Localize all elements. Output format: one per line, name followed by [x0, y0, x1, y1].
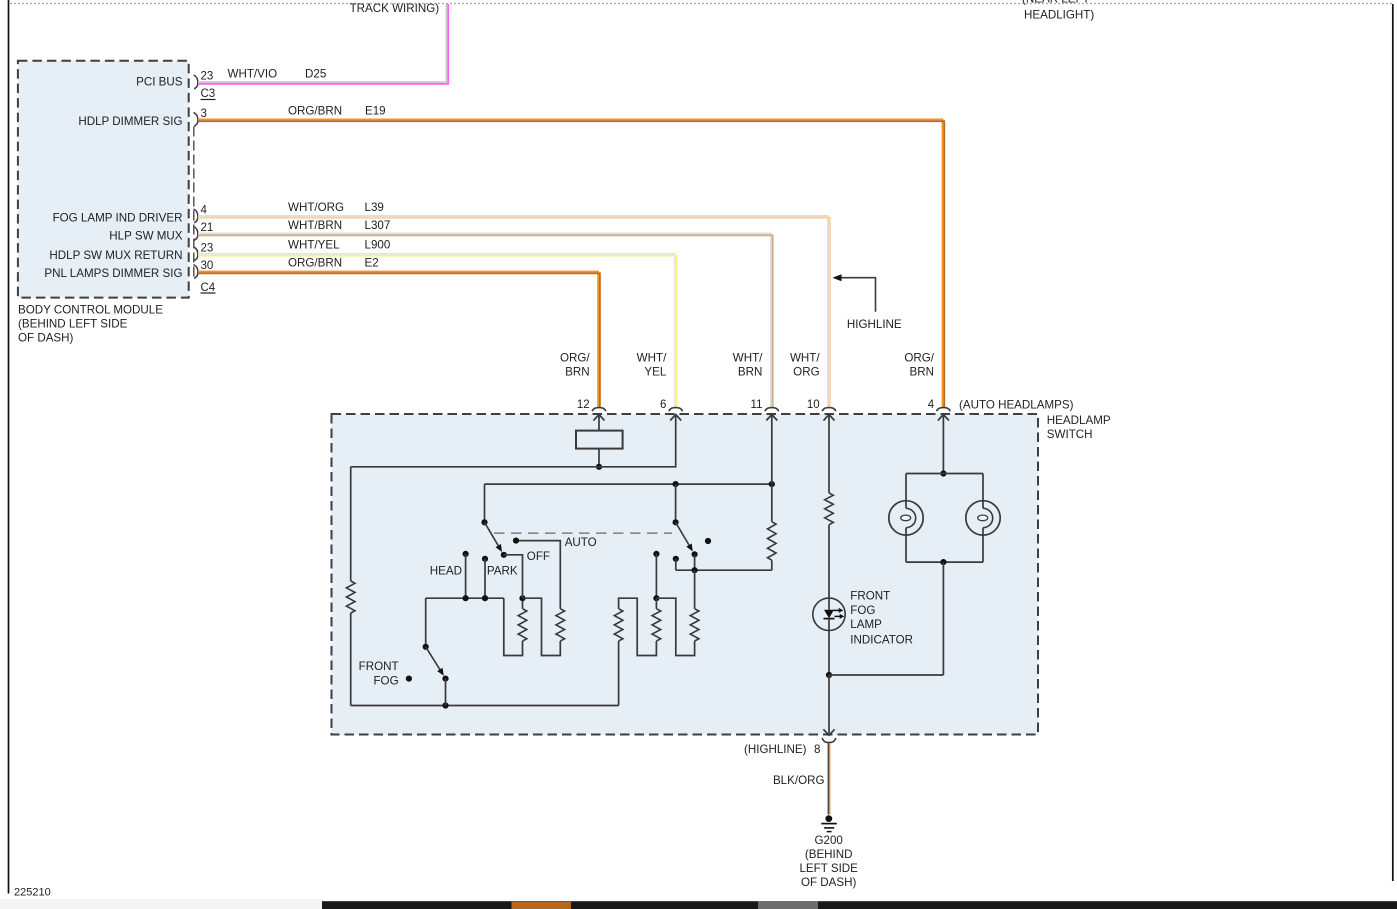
- svg-text:BRN: BRN: [565, 366, 589, 379]
- svg-text:ORG/BRN: ORG/BRN: [288, 105, 342, 118]
- svg-text:E19: E19: [365, 105, 386, 118]
- svg-text:PNL LAMPS DIMMER SIG: PNL LAMPS DIMMER SIG: [44, 267, 182, 280]
- svg-text:11: 11: [751, 399, 763, 411]
- svg-text:FOG: FOG: [850, 604, 875, 617]
- svg-text:(HIGHLINE): (HIGHLINE): [744, 743, 807, 756]
- svg-text:8: 8: [814, 743, 820, 756]
- svg-text:WHT/: WHT/: [637, 352, 667, 365]
- svg-text:OF DASH): OF DASH): [18, 332, 74, 345]
- svg-text:OF DASH): OF DASH): [801, 876, 857, 889]
- svg-text:ORG/: ORG/: [904, 352, 934, 365]
- svg-text:10: 10: [807, 399, 820, 411]
- svg-text:WHT/: WHT/: [790, 352, 820, 365]
- svg-text:21: 21: [201, 222, 214, 234]
- svg-text:C4: C4: [201, 282, 216, 294]
- svg-text:4: 4: [201, 205, 208, 217]
- svg-text:ORG/: ORG/: [560, 352, 590, 365]
- svg-text:HEADLAMP: HEADLAMP: [1047, 414, 1111, 427]
- svg-text:(NEAR LEFT: (NEAR LEFT: [1022, 0, 1090, 6]
- svg-text:LAMP: LAMP: [850, 618, 882, 631]
- svg-text:HEADLIGHT): HEADLIGHT): [1024, 9, 1094, 22]
- svg-text:BLK/ORG: BLK/ORG: [773, 774, 825, 787]
- svg-text:L307: L307: [365, 219, 391, 232]
- svg-text:WHT/YEL: WHT/YEL: [288, 239, 340, 252]
- svg-text:ORG: ORG: [793, 366, 819, 379]
- svg-text:(AUTO HEADLAMPS): (AUTO HEADLAMPS): [959, 398, 1074, 411]
- svg-text:INDICATOR: INDICATOR: [850, 634, 913, 647]
- svg-text:L900: L900: [365, 239, 391, 252]
- svg-text:HDLP SW MUX RETURN: HDLP SW MUX RETURN: [49, 249, 182, 262]
- svg-text:ORG/BRN: ORG/BRN: [288, 257, 342, 270]
- svg-text:OFF: OFF: [527, 550, 550, 563]
- svg-text:E2: E2: [365, 257, 379, 270]
- svg-text:C3: C3: [201, 88, 216, 100]
- svg-text:(BEHIND LEFT SIDE: (BEHIND LEFT SIDE: [18, 318, 128, 331]
- svg-text:3: 3: [201, 108, 207, 120]
- svg-text:BODY CONTROL MODULE: BODY CONTROL MODULE: [18, 304, 163, 317]
- svg-text:FOG LAMP IND DRIVER: FOG LAMP IND DRIVER: [53, 212, 183, 225]
- svg-text:HEAD: HEAD: [430, 564, 462, 577]
- svg-text:D25: D25: [305, 68, 326, 81]
- svg-text:FRONT: FRONT: [850, 590, 890, 603]
- svg-text:LEFT SIDE: LEFT SIDE: [799, 862, 858, 875]
- svg-text:(BEHIND: (BEHIND: [805, 848, 853, 861]
- svg-text:HDLP DIMMER SIG: HDLP DIMMER SIG: [78, 115, 182, 128]
- svg-text:YEL: YEL: [644, 366, 666, 379]
- svg-text:PCI BUS: PCI BUS: [136, 76, 183, 89]
- svg-text:L39: L39: [365, 201, 384, 214]
- svg-text:WHT/VIO: WHT/VIO: [228, 68, 278, 81]
- svg-text:TRACK WIRING): TRACK WIRING): [350, 2, 440, 15]
- svg-text:WHT/BRN: WHT/BRN: [288, 219, 342, 232]
- svg-text:BRN: BRN: [738, 366, 762, 379]
- svg-text:HIGHLINE: HIGHLINE: [847, 318, 902, 331]
- svg-text:225210: 225210: [14, 887, 51, 899]
- svg-text:FOG: FOG: [373, 675, 398, 688]
- svg-text:PARK: PARK: [487, 564, 518, 577]
- svg-text:FRONT: FRONT: [359, 660, 399, 673]
- svg-text:23: 23: [201, 243, 214, 255]
- svg-text:WHT/: WHT/: [733, 352, 763, 365]
- svg-text:4: 4: [928, 399, 935, 411]
- svg-text:HLP SW MUX: HLP SW MUX: [109, 229, 182, 242]
- svg-text:G200: G200: [815, 834, 843, 847]
- svg-text:23: 23: [201, 71, 214, 83]
- svg-text:12: 12: [577, 399, 590, 411]
- svg-text:WHT/ORG: WHT/ORG: [288, 201, 344, 214]
- svg-text:30: 30: [201, 260, 214, 272]
- svg-text:SWITCH: SWITCH: [1047, 428, 1093, 441]
- svg-text:AUTO: AUTO: [565, 536, 597, 549]
- svg-text:BRN: BRN: [910, 366, 934, 379]
- svg-text:6: 6: [660, 399, 666, 411]
